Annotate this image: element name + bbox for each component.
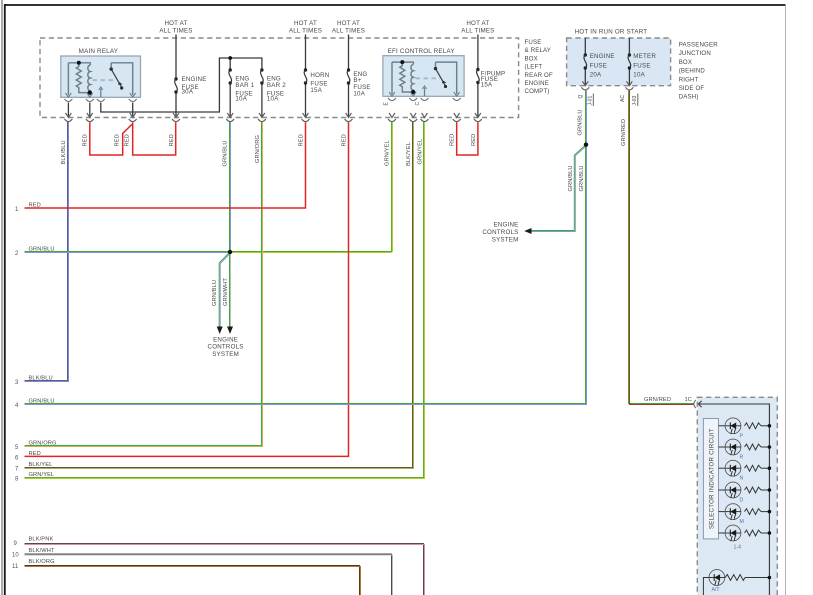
main relay terminal3 stub with up arrow — [100, 89, 102, 98]
svg-text:RED: RED — [115, 134, 121, 146]
wire: eng bar 1 fuse to bottom edge — [229, 83, 231, 116]
wire: main relay top rail left — [68, 63, 90, 65]
wire: eng b+ fuse to bottom edge — [348, 83, 350, 116]
wire: engine fuse 30A to bottom edge — [175, 92, 177, 116]
switch main relay — [110, 67, 113, 70]
svg-text:GRN/BLU: GRN/BLU — [29, 398, 55, 404]
svg-text:Q: Q — [578, 95, 584, 99]
connector crossing: meter fuse 10A / GRN/RED pin AC J-03 — [626, 81, 634, 90]
svg-text:SYSTEM: SYSTEM — [492, 237, 519, 244]
wire: hot stub to eng b+ fuse — [348, 35, 350, 71]
svg-text:HOT AT: HOT AT — [466, 20, 489, 27]
svg-text:MAIN RELAY: MAIN RELAY — [79, 48, 119, 55]
wire: hot-at-all-times stub to engine fuse 30A — [175, 35, 177, 80]
wire GRN/WHT branch to engine controls system — [230, 252, 231, 327]
wire: engine fuse 20A to bottom edge — [584, 68, 586, 85]
wire: hot stub to f/pump fuse — [477, 35, 479, 70]
connector cup at selector entry — [694, 400, 696, 408]
fuse & relay box label — [525, 39, 553, 95]
fuse HORN 15A — [304, 68, 307, 84]
junction dot eng bar rail — [228, 56, 232, 60]
wire: main relay t2 drop — [89, 103, 91, 117]
wire GRN/BLU branch to engine controls system right — [531, 145, 587, 232]
svg-text:RED: RED — [169, 134, 175, 146]
wire BLK/ORG line 11 — [25, 566, 361, 595]
svg-text:ENGINE: ENGINE — [493, 222, 518, 229]
svg-text:BLK/WHT: BLK/WHT — [29, 548, 56, 554]
wire: f/pump fuse to bottom edge — [477, 83, 479, 117]
junction dot efi relay rail — [400, 60, 404, 64]
rotated wire labels below fuse box — [61, 134, 477, 167]
svg-text:B+: B+ — [353, 77, 361, 84]
svg-text:ALL TIMES: ALL TIMES — [289, 28, 322, 35]
connector crossing: efi relay t1 / GRN/YEL — [388, 113, 396, 122]
wire: eng bar 2 fuse to bottom edge — [261, 83, 263, 116]
fuse text ENGINE 20A — [590, 53, 615, 79]
fuse text METER 10A — [633, 53, 656, 79]
wire GRN/BLU engine fuse 20A down to line 4 — [25, 91, 587, 405]
wire line 2 horizontal GRN/YEL right of junction — [230, 252, 393, 253]
junction dot grn/blu — [584, 143, 588, 147]
page frame left double border — [1, 0, 3, 595]
svg-text:ALL TIMES: ALL TIMES — [461, 28, 494, 35]
efi control relay box — [383, 56, 464, 97]
svg-text:J-03: J-03 — [632, 96, 638, 106]
svg-text:10A: 10A — [633, 72, 645, 79]
engine controls system text (right) — [482, 222, 518, 244]
svg-text:10A: 10A — [267, 95, 279, 102]
svg-text:& RELAY: & RELAY — [525, 47, 552, 54]
svg-text:ENGINE: ENGINE — [182, 76, 207, 83]
arrow left at selector entry — [698, 401, 701, 407]
svg-text:ENGINE: ENGINE — [590, 53, 615, 60]
svg-text:RED: RED — [82, 134, 88, 146]
wire: horn fuse to bottom edge — [305, 83, 307, 116]
wire GRN/YEL efi t1 down to line 2 — [392, 122, 393, 252]
svg-text:1C: 1C — [685, 397, 693, 403]
svg-text:FUSE: FUSE — [525, 39, 542, 46]
wire: resistor bottom to coil bottom — [79, 89, 90, 93]
svg-text:METER: METER — [633, 53, 656, 60]
svg-text:BLK/ORG: BLK/ORG — [29, 559, 55, 565]
arrow down GRN/WHT — [227, 327, 233, 335]
connector underlines J-01 / J-03 — [592, 94, 594, 107]
svg-text:GRN/ORG: GRN/ORG — [255, 135, 261, 163]
svg-text:SIDE OF: SIDE OF — [679, 85, 705, 92]
passenger junction box label — [679, 42, 719, 101]
connector crossing: engine fuse 30A / RED — [172, 113, 180, 122]
wire: main relay switch riser — [111, 63, 133, 95]
wire BLK/PNK line 9 — [25, 544, 425, 595]
svg-text:GRN/RED: GRN/RED — [644, 397, 671, 403]
svg-text:ALL TIMES: ALL TIMES — [332, 28, 365, 35]
wire GRN/BLU branch to engine controls system — [219, 253, 230, 328]
svg-text:CONTROLS: CONTROLS — [482, 229, 518, 236]
svg-text:BLK/YEL: BLK/YEL — [406, 142, 412, 166]
svg-text:EFI CONTROL RELAY: EFI CONTROL RELAY — [388, 48, 456, 55]
selector label box — [703, 419, 718, 539]
wire BLK/BLU main relay t1 to line 3 — [25, 122, 69, 382]
connector crossing: eng b+ fuse / RED — [345, 113, 353, 122]
svg-text:BLK/BLU: BLK/BLU — [61, 140, 67, 164]
main relay box — [61, 56, 141, 97]
svg-text:HOT AT: HOT AT — [337, 20, 360, 27]
wire BLK/WHT line 10 — [25, 554, 393, 595]
wire line 2 horizontal GRN/BLU left of junction — [25, 252, 231, 253]
svg-text:RED: RED — [341, 134, 347, 146]
efi relay bottom cups — [388, 98, 461, 101]
fuse ENG B+ 10A — [347, 68, 350, 84]
svg-text:HOT AT: HOT AT — [294, 20, 317, 27]
svg-text:C: C — [415, 102, 421, 106]
svg-text:RED: RED — [450, 134, 456, 146]
hot at all times labels — [159, 20, 494, 35]
junction dot main relay rail — [77, 61, 81, 65]
svg-text:BAR 2: BAR 2 — [267, 82, 286, 89]
efi control relay interior — [392, 62, 457, 94]
svg-text:AC: AC — [620, 95, 626, 102]
svg-text:D: D — [740, 498, 744, 504]
LED N row — [719, 460, 772, 481]
junction dot line2 — [228, 250, 232, 254]
fuse ENG BAR 2 10A — [260, 68, 263, 84]
main relay bottom terminal arrows — [66, 93, 136, 97]
wire RED eng b+ fuse to line 6 — [25, 122, 349, 456]
wire: main relay terminal1 riser — [67, 63, 69, 95]
numbered line labels — [12, 203, 57, 570]
svg-text:GRN/YEL: GRN/YEL — [385, 140, 391, 166]
svg-text:RED: RED — [298, 134, 304, 146]
svg-text:BAR 1: BAR 1 — [235, 82, 254, 89]
svg-text:RED: RED — [471, 134, 477, 146]
connector crossing: efi relay t2 / BLK/YEL — [409, 113, 417, 122]
page frame top border — [4, 4, 786, 6]
junction dot main relay bottom — [88, 90, 92, 94]
svg-text:10: 10 — [12, 552, 19, 558]
svg-text:ALL TIMES: ALL TIMES — [159, 28, 192, 35]
svg-text:GRN/RED: GRN/RED — [621, 119, 627, 146]
wire: efi relay switch riser — [436, 62, 457, 94]
LED M row — [719, 504, 772, 525]
svg-text:10A: 10A — [353, 91, 365, 98]
connector crossing: f/pump fuse / RED — [474, 113, 482, 122]
wire: meter fuse feed — [628, 38, 630, 55]
svg-text:GRN/ORG: GRN/ORG — [29, 440, 57, 446]
svg-text:15A: 15A — [481, 82, 493, 89]
svg-text:GRN/BLU: GRN/BLU — [568, 165, 574, 191]
resistor efi relay coil-resistor — [400, 63, 405, 89]
svg-text:11: 11 — [12, 564, 19, 570]
svg-text:HOT AT: HOT AT — [164, 20, 187, 27]
svg-text:FUSE: FUSE — [633, 63, 650, 70]
rotated labels right side — [568, 109, 627, 191]
dashed link efi coil to switch — [416, 77, 440, 79]
fuse text HORN — [310, 72, 329, 94]
arrow down GRN/BLU — [217, 327, 223, 335]
svg-text:GRN/BLU: GRN/BLU — [223, 140, 229, 166]
LED R row — [719, 439, 772, 460]
junction dot efi relay bottom — [411, 90, 415, 94]
switch efi relay — [434, 67, 437, 70]
svg-text:ENGINE: ENGINE — [213, 337, 238, 344]
svg-text:GRN/BLU: GRN/BLU — [579, 165, 585, 191]
wire: efi resistor bottom to coil bottom — [402, 88, 413, 92]
svg-text:RIGHT: RIGHT — [679, 76, 699, 83]
wire: eng bar 1 fuse drop from rail — [229, 58, 231, 70]
svg-text:N: N — [740, 476, 744, 482]
main relay bottom cups — [65, 99, 137, 102]
connector crossing: engine fuse 20A / GRN/BLU pin Q J-01 — [581, 81, 589, 90]
fuse ENG BAR 1 10A — [229, 68, 232, 84]
LED 1-4 row — [719, 525, 772, 550]
fuse ENGINE 20A — [584, 53, 587, 69]
fuse text ENGINE 30A — [182, 76, 207, 96]
svg-text:SYSTEM: SYSTEM — [212, 351, 239, 358]
svg-text:(LEFT: (LEFT — [525, 64, 543, 71]
wire RED jumper t2 to t4 — [90, 122, 132, 155]
engine controls system text (middle) — [208, 337, 244, 358]
svg-text:20A: 20A — [590, 72, 602, 79]
svg-text:GRN/WHT: GRN/WHT — [223, 278, 229, 306]
selector indicator circuit box (dashed) — [697, 397, 777, 595]
svg-text:BOX: BOX — [525, 55, 538, 62]
svg-text:GRN/YEL: GRN/YEL — [418, 139, 424, 165]
wire: efi relay terminal1 riser — [391, 62, 393, 94]
wire: meter fuse to bottom edge — [628, 68, 630, 85]
svg-text:RED: RED — [29, 451, 41, 457]
resistor main relay coil-resistor — [76, 64, 81, 90]
svg-text:15A: 15A — [310, 87, 322, 94]
svg-text:10A: 10A — [235, 95, 247, 102]
svg-text:GRN/YEL: GRN/YEL — [29, 472, 55, 478]
wire RED jumper efi t4 to f/pump fuse — [457, 122, 478, 155]
svg-text:BLK/YEL: BLK/YEL — [29, 462, 53, 468]
inductor main relay coil — [88, 65, 90, 91]
svg-text:GRN/BLU: GRN/BLU — [29, 247, 55, 253]
connector crossing: horn fuse / RED — [302, 113, 310, 122]
fuse text ENG B+ — [353, 71, 370, 98]
page frame right border — [785, 5, 787, 595]
svg-text:A/T: A/T — [712, 587, 721, 593]
fuse METER 10A — [628, 53, 631, 69]
svg-text:HOT IN RUN OR START: HOT IN RUN OR START — [575, 29, 648, 36]
efi relay terminal3 stub with up arrow — [424, 88, 426, 97]
rotated labels middle branches — [212, 278, 229, 306]
fuse text ENG BAR 2 — [267, 76, 286, 103]
connector crossing: efi relay t4 / RED — [453, 113, 461, 122]
wire BLK/YEL efi t2 to line 7 — [25, 122, 414, 469]
connector crossing: eng bar 2 fuse / GRN/ORG — [258, 113, 266, 122]
wire: hot stub to horn fuse — [305, 35, 307, 71]
fuse F/PUMP 15A — [476, 68, 479, 84]
svg-text:PASSENGER: PASSENGER — [679, 42, 719, 49]
svg-text:JUNCTION: JUNCTION — [679, 50, 711, 57]
hot in run or start junction box (dashed) — [567, 38, 671, 86]
LED D row — [719, 482, 772, 503]
wire GRN/BLU eng bar 1 down to junction — [230, 122, 231, 252]
wire: main relay t3 to eng bar rail — [101, 58, 262, 112]
LED P row — [719, 418, 772, 439]
svg-text:GRN/BLU: GRN/BLU — [212, 280, 218, 306]
wire: main relay terminal2 drop — [89, 91, 91, 95]
connector crossing: main relay t1 / BLK/BLU — [65, 113, 73, 122]
wire: engine fuse 20A feed — [584, 38, 586, 55]
svg-text:BLK/BLU: BLK/BLU — [29, 376, 53, 382]
LED A/T row — [703, 570, 771, 595]
svg-text:30A: 30A — [182, 89, 194, 96]
svg-text:COMPT): COMPT) — [525, 88, 550, 95]
pin labels — [383, 95, 638, 106]
connector crossing: main relay t4 / RED — [129, 113, 137, 122]
fuse text F/PUMP — [481, 71, 506, 89]
svg-text:1-4: 1-4 — [734, 545, 742, 551]
svg-text:P: P — [740, 433, 744, 439]
svg-text:RED: RED — [125, 134, 131, 146]
inductor efi relay coil — [411, 64, 413, 90]
svg-text:(BEHIND: (BEHIND — [679, 68, 706, 75]
dashed link coil to switch — [93, 79, 117, 81]
connector crossing: main relay t2 / RED — [86, 113, 94, 122]
wire GRN/RED meter fuse to selector box — [629, 91, 695, 405]
fuse text ENG BAR 1 — [235, 76, 254, 103]
wire: selector internal bus — [698, 404, 769, 595]
wire: main relay t4 drop — [132, 103, 134, 117]
wire: efi relay top rail left — [392, 62, 413, 64]
arrow left engine controls — [524, 228, 531, 234]
wire GRN/ORG eng bar 2 to line 5 — [25, 122, 263, 447]
svg-text:GRN/BLU: GRN/BLU — [578, 109, 584, 135]
connector crossing: efi relay t3 / GRN/YEL — [421, 113, 429, 122]
efi relay bottom terminal arrows — [389, 92, 460, 96]
connector crossing: eng bar 1 fuse / GRN/BLU — [226, 113, 234, 122]
svg-text:DASH): DASH) — [679, 94, 699, 101]
svg-text:R: R — [740, 455, 744, 461]
svg-text:REAR OF: REAR OF — [525, 72, 553, 79]
svg-text:SELECTOR INDICATOR CIRCUIT: SELECTOR INDICATOR CIRCUIT — [709, 428, 716, 529]
wire RED horn fuse to line 1 — [25, 122, 306, 208]
svg-text:CONTROLS: CONTROLS — [208, 344, 244, 351]
svg-text:BLK/PNK: BLK/PNK — [29, 537, 54, 543]
gray feed wires inside fuse box — [68, 35, 629, 117]
wire: main relay t1 drop — [67, 103, 69, 117]
svg-text:M: M — [740, 519, 744, 525]
svg-text:RED: RED — [29, 203, 41, 209]
svg-text:ENGINE: ENGINE — [525, 80, 549, 87]
wire RED jumper t4 to engine fuse 30A — [133, 122, 176, 155]
svg-text:FUSE: FUSE — [590, 63, 607, 70]
svg-text:HORN: HORN — [310, 72, 329, 79]
fuse ENGINE 30A — [174, 77, 177, 93]
svg-text:BOX: BOX — [679, 59, 692, 66]
fuse &amp; relay box (dashed) — [40, 38, 519, 118]
wire GRN/YEL efi t3 to line 8 — [25, 122, 425, 479]
wire: efi relay terminal2 drop — [412, 90, 414, 94]
main relay interior — [68, 63, 132, 95]
svg-text:J-01: J-01 — [587, 96, 593, 106]
